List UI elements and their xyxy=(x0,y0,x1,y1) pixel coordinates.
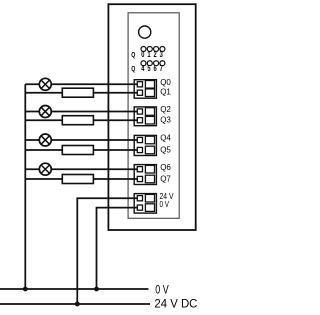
svg-text:4: 4 xyxy=(141,65,144,73)
svg-text:Q7: Q7 xyxy=(160,174,171,183)
svg-text:0: 0 xyxy=(141,51,144,59)
svg-text:Q2: Q2 xyxy=(160,105,171,114)
svg-text:Q6: Q6 xyxy=(160,163,171,172)
svg-text:Q3: Q3 xyxy=(160,116,171,125)
svg-text:1: 1 xyxy=(147,51,150,59)
svg-text:0 V: 0 V xyxy=(155,284,169,297)
svg-text:Q: Q xyxy=(131,51,135,59)
svg-text:24 V DC: 24 V DC xyxy=(154,298,197,311)
svg-text:Q: Q xyxy=(131,65,135,73)
svg-text:5: 5 xyxy=(147,65,150,73)
svg-text:Q1: Q1 xyxy=(160,88,171,97)
svg-text:7: 7 xyxy=(160,65,163,73)
svg-text:6: 6 xyxy=(153,65,156,73)
svg-text:Q4: Q4 xyxy=(160,134,171,143)
svg-text:0 V: 0 V xyxy=(160,200,170,209)
svg-text:Q5: Q5 xyxy=(160,145,171,154)
svg-text:2: 2 xyxy=(153,51,156,59)
svg-text:Q0: Q0 xyxy=(160,78,171,87)
svg-text:3: 3 xyxy=(160,51,163,59)
